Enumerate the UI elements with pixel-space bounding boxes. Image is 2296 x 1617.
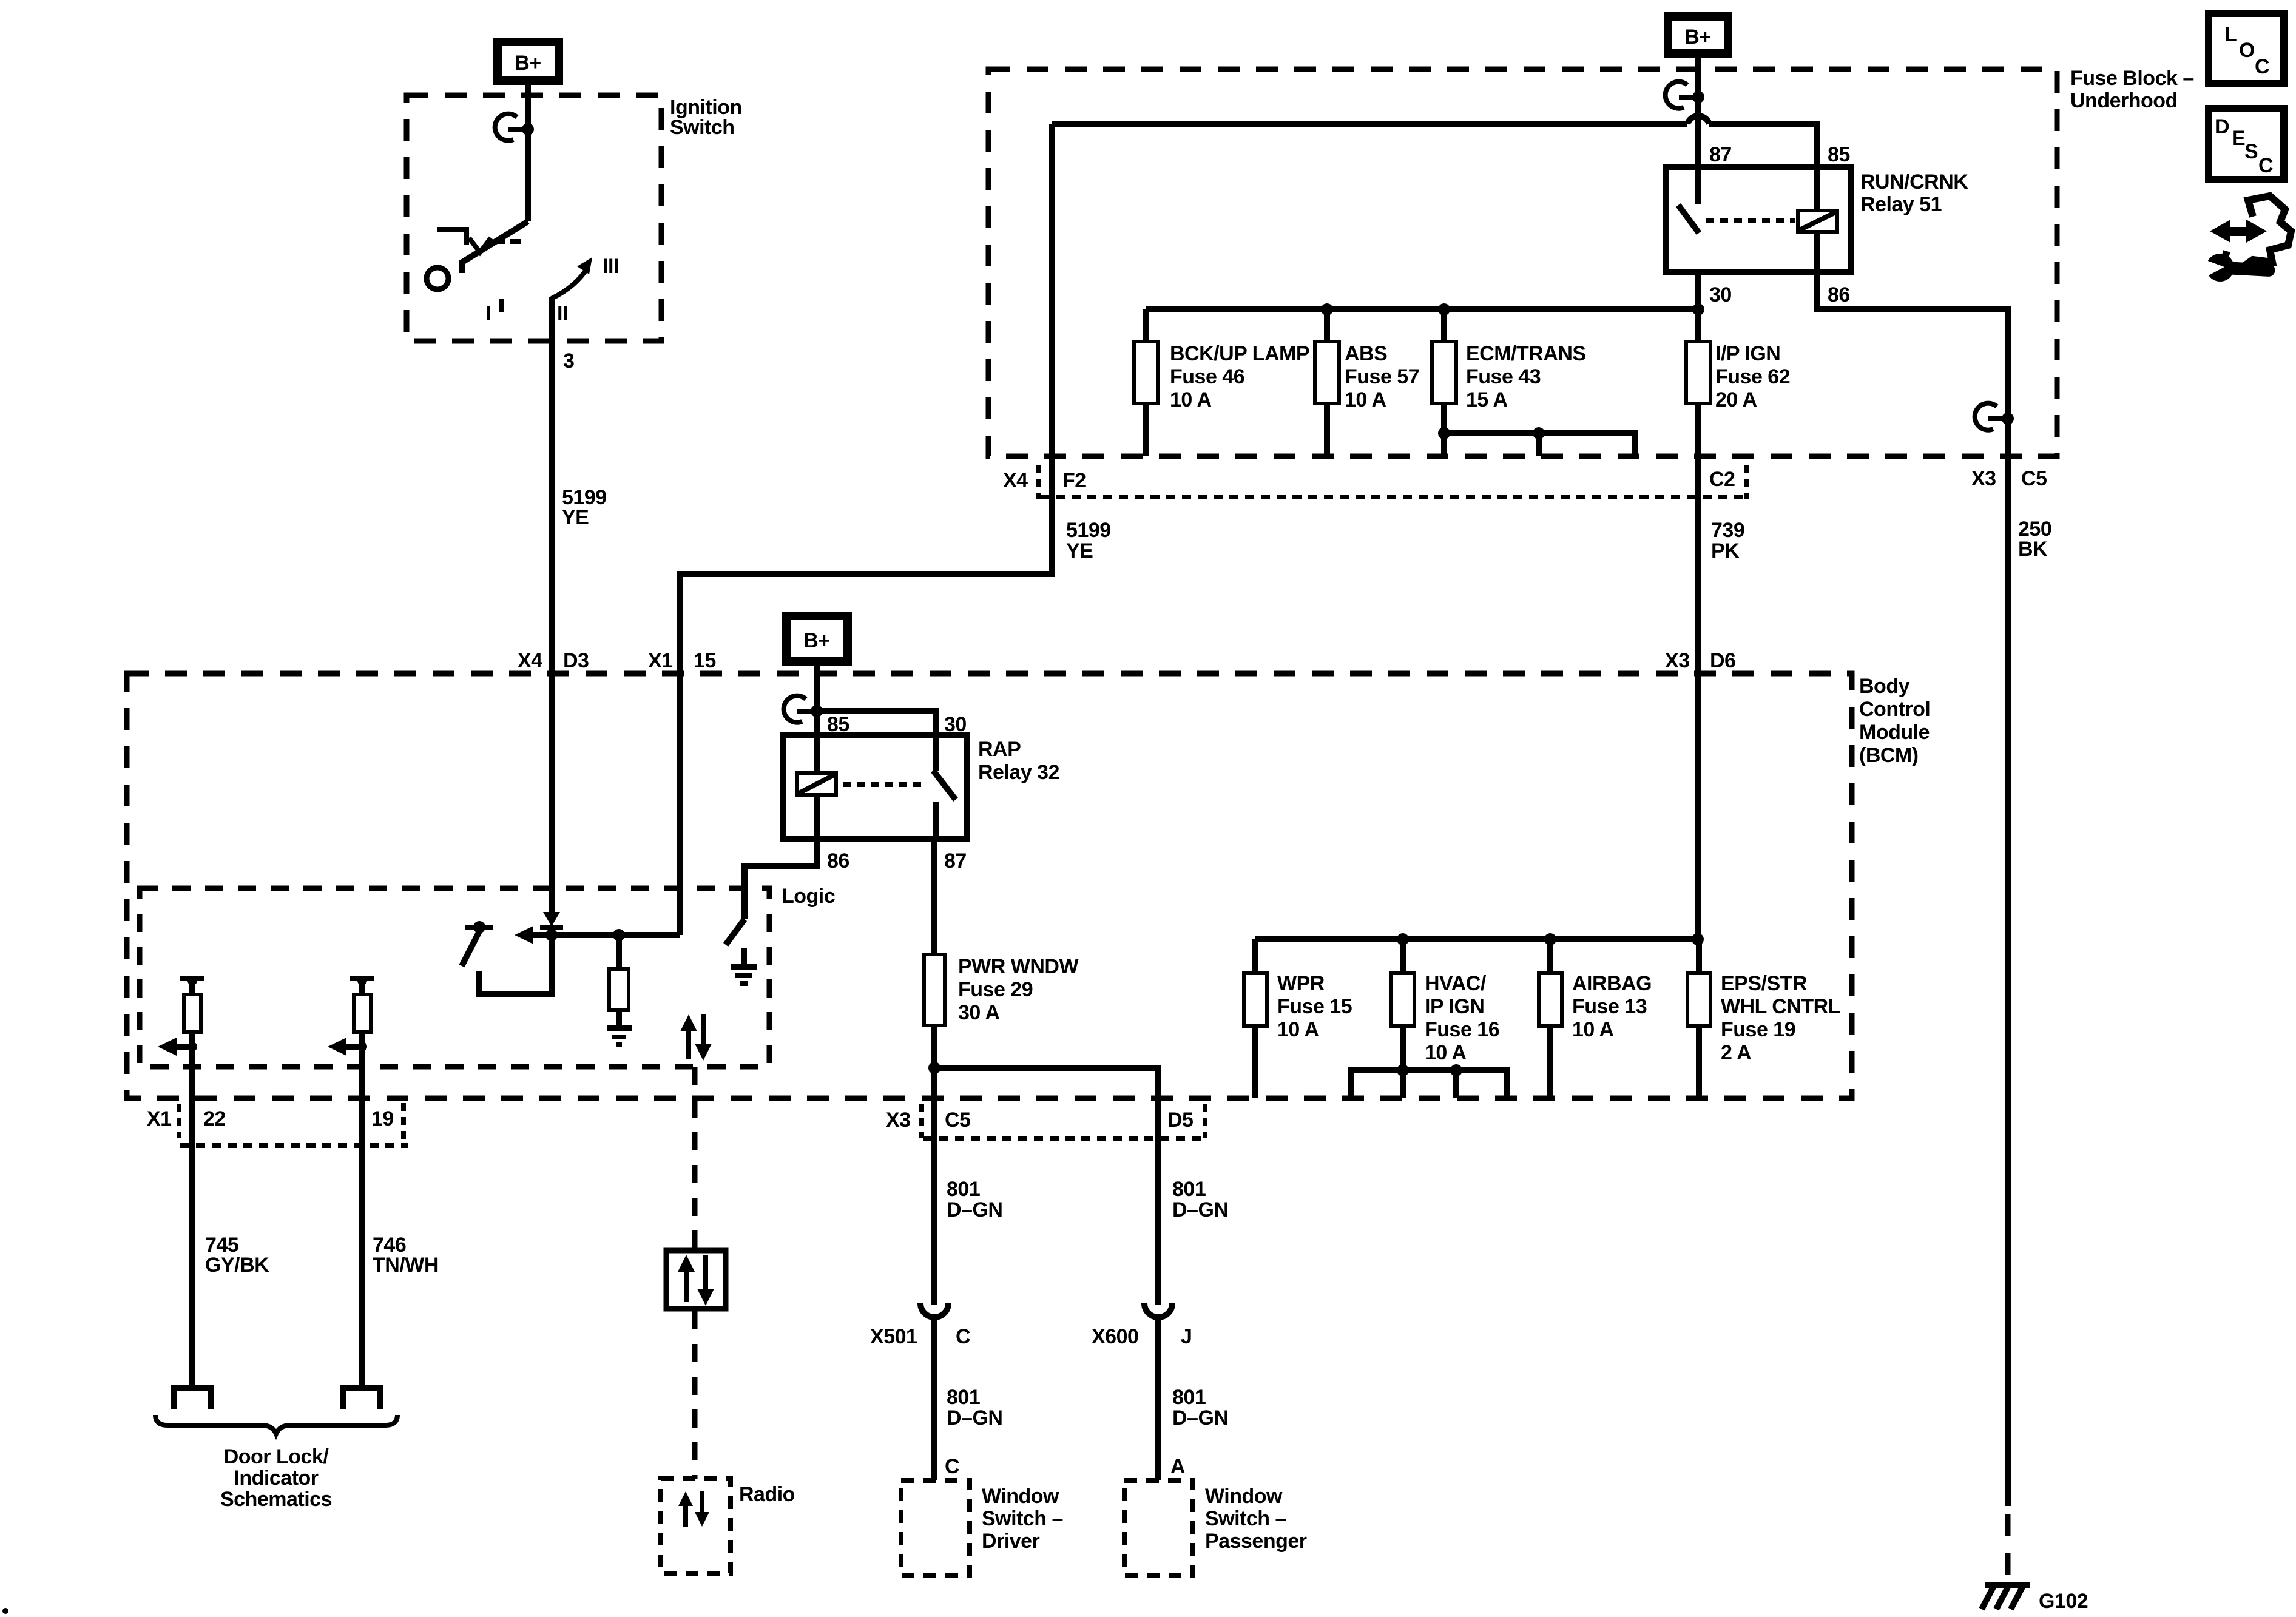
wire 5199 YE from relay 85 to connector F2 (with crossover bump) [1052, 121, 1687, 127]
svg-text:(BCM): (BCM) [1859, 744, 1919, 767]
svg-text:801: 801 [947, 1386, 980, 1409]
svg-text:85: 85 [1828, 143, 1850, 166]
svg-text:C2: C2 [1709, 468, 1735, 491]
arrow down in box [703, 1255, 708, 1289]
svg-text:Fuse 29: Fuse 29 [958, 978, 1033, 1001]
svg-text:AIRBAG: AIRBAG [1572, 972, 1652, 995]
internal node wire [530, 932, 680, 938]
fuse AIRBAG Fuse 13 [1547, 939, 1553, 973]
svg-text:GY/BK: GY/BK [205, 1254, 269, 1277]
logic switch blade [726, 919, 745, 945]
fuse WPR Fuse 15 [1252, 939, 1258, 973]
ignition switch dashed box [407, 95, 661, 341]
svg-text:X1: X1 [648, 649, 673, 672]
connector dotted line X3 [923, 1136, 1205, 1141]
ignition feed arrow into gang bar [543, 912, 560, 927]
BCM inner logic dashed box [140, 888, 769, 1067]
svg-text:G102: G102 [2039, 1590, 2088, 1613]
svg-text:D: D [2215, 115, 2229, 138]
fuse HVAC/IP IGN Fuse 16 [1400, 939, 1406, 973]
power symbol B+ (RAP relay feed) [786, 616, 848, 661]
svg-text:YE: YE [562, 506, 589, 529]
ignition key symbol [437, 229, 467, 245]
svg-text:X4: X4 [518, 649, 542, 672]
RUN/CRNK relay 51 box [1666, 167, 1851, 272]
BCM ignition fuse bus [1255, 936, 1698, 942]
service information icon (double arrow, panel outline, wrench) [2223, 196, 2291, 267]
fuse ECM/TRANS Fuse 43 [1441, 309, 1447, 342]
svg-text:YE: YE [1066, 539, 1093, 562]
resistor ground [607, 1025, 632, 1031]
svg-text:10 A: 10 A [1425, 1041, 1467, 1064]
svg-text:ECM/TRANS: ECM/TRANS [1466, 342, 1586, 365]
svg-text:Fuse 19: Fuse 19 [1721, 1018, 1795, 1041]
svg-text:10 A: 10 A [1277, 1018, 1319, 1041]
inline clip connector at fuse block B+ [1666, 82, 1687, 109]
junction dot to passenger branch [928, 1062, 940, 1074]
svg-text:X3: X3 [886, 1109, 911, 1132]
svg-text:Fuse 16: Fuse 16 [1425, 1018, 1499, 1041]
wire B+ down to RUN/CRNK relay pin 87 [1695, 53, 1701, 167]
svg-text:20 A: 20 A [1715, 388, 1757, 411]
svg-text:D–GN: D–GN [1172, 1198, 1228, 1221]
svg-text:Fuse 43: Fuse 43 [1466, 365, 1541, 388]
svg-text:801: 801 [1172, 1178, 1206, 1201]
svg-text:D–GN: D–GN [947, 1198, 1002, 1221]
wire relay 30 down to I/P IGN fuse [1695, 272, 1701, 342]
window motion arrow box [666, 1251, 726, 1309]
door lock feed 1 terminal bar [180, 976, 204, 981]
arrow up in box [684, 1268, 689, 1302]
junction dot at RAP B+ [811, 705, 823, 717]
svg-text:C: C [2255, 55, 2269, 78]
door lock gang arrow 2 [328, 1038, 346, 1056]
svg-text:10 A: 10 A [1345, 388, 1386, 411]
svg-text:Switch –: Switch – [1205, 1507, 1286, 1530]
inline clip connector at ignition B+ [495, 114, 517, 141]
svg-text:TN/WH: TN/WH [373, 1254, 439, 1277]
svg-text:C5: C5 [2021, 467, 2047, 490]
svg-text:85: 85 [827, 713, 849, 736]
svg-text:III: III [603, 255, 619, 278]
fuse ABS Fuse 57 [1324, 309, 1330, 342]
svg-text:801: 801 [1172, 1386, 1206, 1409]
inline clip connector at RAP B+ [784, 696, 806, 723]
svg-text:B+: B+ [803, 629, 829, 652]
connector dotted line X1 [180, 1143, 408, 1148]
window switch passenger dashed box [1124, 1480, 1193, 1575]
svg-text:RUN/CRNK: RUN/CRNK [1860, 170, 1968, 194]
ignition switch terminal circle [427, 268, 448, 289]
svg-text:15 A: 15 A [1466, 388, 1508, 411]
svg-text:X4: X4 [1003, 469, 1028, 492]
svg-text:Fuse 57: Fuse 57 [1345, 365, 1419, 388]
HVAC fuse output bus [1351, 1070, 1507, 1098]
radio logic dashed wire (lower) [692, 1311, 698, 1479]
radio dashed box [661, 1479, 731, 1573]
svg-text:15: 15 [694, 649, 716, 672]
svg-text:X3: X3 [1665, 649, 1690, 672]
ECM/TRANS fuse output bus [1444, 433, 1635, 456]
terminal symbol wire 746 [343, 1388, 380, 1409]
svg-text:Module: Module [1859, 721, 1930, 744]
svg-text:I: I [485, 302, 491, 325]
wire branch to passenger window switch [934, 1068, 1158, 1287]
wire branch to RAP pin 30 [817, 711, 936, 735]
svg-text:D–GN: D–GN [947, 1406, 1002, 1430]
door lock feed 2 terminal bar [350, 976, 374, 981]
connector dotted line F2-C2 [1040, 495, 1746, 499]
fuse I/P IGN Fuse 62 [1686, 342, 1710, 403]
RAP relay actuator dashed link [843, 782, 927, 787]
svg-text:X3: X3 [1971, 467, 1996, 490]
relay 51 actuator dashed link [1706, 218, 1795, 223]
svg-text:HVAC/: HVAC/ [1425, 972, 1487, 995]
door lock resistor 2 [359, 980, 365, 994]
svg-text:30: 30 [944, 713, 967, 736]
relay 51 pin 86 internal stub [1814, 232, 1820, 272]
inline connector X501 [931, 1285, 937, 1305]
BCM dashed box [127, 673, 1852, 1098]
svg-text:C: C [945, 1455, 959, 1478]
svg-text:WPR: WPR [1277, 972, 1325, 995]
svg-text:BCK/UP LAMP: BCK/UP LAMP [1170, 342, 1309, 365]
svg-text:B+: B+ [515, 52, 541, 75]
svg-text:87: 87 [1709, 143, 1732, 166]
svg-text:Window: Window [982, 1485, 1059, 1508]
svg-text:J: J [1181, 1325, 1192, 1348]
svg-text:10 A: 10 A [1572, 1018, 1614, 1041]
svg-text:Door Lock/: Door Lock/ [224, 1445, 329, 1468]
inline connector X600 [1155, 1285, 1161, 1305]
svg-text:IP IGN: IP IGN [1425, 995, 1484, 1018]
svg-text:D5: D5 [1167, 1109, 1193, 1132]
page corner mark [2, 1608, 8, 1614]
svg-text:S: S [2244, 140, 2258, 163]
power symbol B+ (ignition switch feed) [498, 42, 559, 81]
svg-text:PK: PK [1711, 539, 1740, 562]
wire PWR WNDW fuse (RAP 87 output) [931, 839, 937, 954]
svg-text:Schematics: Schematics [220, 1488, 332, 1511]
svg-text:Fuse 13: Fuse 13 [1572, 995, 1647, 1018]
DESC navigation box [2209, 109, 2284, 180]
svg-text:Fuse Block –: Fuse Block – [2070, 67, 2194, 90]
fuse EPS/STR WHL CNTRL Fuse 19 [1696, 939, 1702, 973]
svg-text:C: C [956, 1325, 970, 1348]
svg-text:5199: 5199 [1066, 519, 1111, 542]
svg-text:ABS: ABS [1345, 342, 1387, 365]
wire RAP pin 86 to logic switch [745, 839, 817, 919]
svg-text:Window: Window [1205, 1485, 1283, 1508]
brace door lock group [155, 1415, 397, 1434]
power symbol B+ (fuse block underhood) [1668, 16, 1728, 53]
svg-text:PWR WNDW: PWR WNDW [958, 955, 1079, 978]
ground G102 symbol [1985, 1582, 2030, 1588]
radio logic dashed wire (upper) [692, 1067, 698, 1248]
svg-text:E: E [2232, 127, 2245, 150]
fuse BCK/UP LAMP Fuse 46 [1143, 309, 1149, 342]
svg-text:Fuse 15: Fuse 15 [1277, 995, 1352, 1018]
svg-text:Relay 51: Relay 51 [1860, 193, 1942, 216]
svg-text:Radio: Radio [739, 1483, 795, 1506]
svg-text:Body: Body [1859, 675, 1910, 698]
terminal symbol wire 745 [174, 1388, 211, 1409]
relay 51 pin 87 internal stub and switch blade [1695, 167, 1701, 204]
gang actuation arrow (left) [515, 926, 533, 944]
internal switch pivot and blade [465, 925, 493, 930]
svg-text:30: 30 [1709, 283, 1732, 306]
svg-text:86: 86 [1828, 283, 1850, 306]
svg-text:L: L [2224, 23, 2237, 46]
RAP relay 32 box [783, 735, 967, 839]
svg-text:801: 801 [947, 1178, 980, 1201]
wire B+ down to ignition switch contact [525, 81, 531, 221]
ignition position arrow to III [552, 267, 588, 299]
svg-text:739: 739 [1711, 519, 1744, 542]
PWR WNDW Fuse 29 [924, 954, 945, 1025]
svg-text:A: A [1170, 1455, 1185, 1478]
svg-text:WHL CNTRL: WHL CNTRL [1721, 995, 1840, 1018]
wire F2 to BCM X1/15 [680, 574, 1052, 673]
svg-text:O: O [2239, 39, 2255, 62]
svg-text:Relay 32: Relay 32 [978, 761, 1059, 784]
svg-text:Logic: Logic [782, 885, 835, 908]
RAP relay coil [814, 735, 820, 773]
svg-text:Fuse 62: Fuse 62 [1715, 365, 1790, 388]
junction dot at fuse block B+ [1692, 91, 1704, 103]
ignition switch blade [462, 221, 528, 273]
svg-text:BK: BK [2018, 538, 2048, 561]
svg-text:3: 3 [563, 349, 574, 373]
svg-text:22: 22 [203, 1107, 226, 1130]
junction dot on bus [1692, 303, 1704, 316]
svg-text:Indicator: Indicator [234, 1467, 318, 1490]
relay 51 coil [1798, 211, 1837, 232]
wire 739 PK relay30/fuse62 down to BCM [1695, 403, 1701, 939]
svg-text:X600: X600 [1092, 1325, 1138, 1348]
svg-text:30 A: 30 A [958, 1001, 1000, 1024]
svg-text:Driver: Driver [982, 1530, 1040, 1553]
svg-text:D6: D6 [1710, 649, 1735, 672]
svg-text:D–GN: D–GN [1172, 1406, 1228, 1430]
svg-text:86: 86 [827, 849, 849, 873]
window direction arrows (BCM logic) [686, 1028, 691, 1059]
door lock gang arrow 1 [158, 1038, 177, 1056]
svg-text:19: 19 [371, 1107, 394, 1130]
svg-text:Control: Control [1859, 698, 1930, 721]
dashed ground lead [2005, 1514, 2011, 1579]
RAP relay switch blade [933, 735, 939, 771]
LOC navigation box [2209, 13, 2284, 84]
svg-text:87: 87 [944, 849, 967, 873]
window switch driver dashed box [901, 1480, 970, 1575]
svg-text:Passenger: Passenger [1205, 1530, 1307, 1553]
svg-text:X501: X501 [870, 1325, 917, 1348]
svg-text:RAP: RAP [978, 738, 1021, 761]
svg-text:F2: F2 [1062, 469, 1086, 492]
internal switch return wire [479, 935, 552, 994]
inline clip connector at C5 [1975, 403, 1997, 430]
radio arrows [683, 1504, 688, 1527]
svg-text:X1: X1 [147, 1107, 172, 1130]
svg-text:10 A: 10 A [1170, 388, 1212, 411]
wire B+ down to RAP relay pin 85 [814, 658, 820, 735]
svg-text:EPS/STR: EPS/STR [1721, 972, 1807, 995]
svg-text:Underhood: Underhood [2070, 89, 2178, 112]
svg-text:I/P IGN: I/P IGN [1715, 342, 1780, 365]
svg-text:C5: C5 [945, 1109, 970, 1132]
relay 51 pin 85 internal stub [1814, 167, 1820, 211]
junction dot at ignition B+ [522, 123, 534, 135]
logic switch ground [741, 948, 747, 966]
svg-text:Switch –: Switch – [982, 1507, 1063, 1530]
svg-text:Switch: Switch [670, 116, 735, 139]
fuse feed bus in fuse block [1146, 306, 1698, 312]
wire relay51 pin 86 to ground G102 [1817, 272, 2008, 1506]
svg-text:B+: B+ [1684, 25, 1710, 49]
wire ignition terminal 3 down to BCM [549, 297, 555, 913]
fuse block underhood dashed box [988, 69, 2057, 456]
svg-text:Fuse 46: Fuse 46 [1170, 365, 1244, 388]
pull-down resistor [616, 935, 622, 969]
svg-text:C: C [2258, 154, 2273, 177]
svg-text:2 A: 2 A [1721, 1041, 1751, 1064]
door lock resistor 1 [189, 980, 195, 994]
svg-text:II: II [557, 302, 568, 325]
svg-text:D3: D3 [563, 649, 589, 672]
